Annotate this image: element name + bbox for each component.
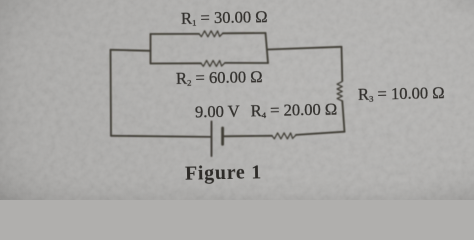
resistor R1 [199, 31, 223, 37]
battery short plate (negative) [221, 128, 224, 144]
wire: battery to R4 [223, 135, 272, 138]
wire: top branch right segment [223, 32, 266, 34]
wire: top branch left segment [151, 33, 200, 35]
wire: box right edge [266, 33, 269, 63]
wire: bottom branch left segment [151, 62, 202, 64]
wire: bottom branch right segment [225, 62, 268, 64]
wire: left connector from node A to box [111, 50, 151, 51]
wire: box left edge [150, 34, 152, 64]
resistor R4 [272, 133, 296, 139]
wire: box to right vertical [268, 47, 342, 50]
resistor R3 [337, 82, 342, 101]
wire: R4 to bottom right corner [296, 132, 345, 135]
label battery voltage and R4 value [195, 100, 338, 123]
wire: left vertical [110, 50, 113, 136]
label R3 value [358, 83, 445, 105]
label R2 value [176, 67, 263, 89]
caption Figure 1 [185, 161, 262, 185]
battery long plate (positive) [211, 122, 213, 157]
resistor R2 [201, 60, 225, 66]
wire: bottom left to battery [111, 136, 211, 137]
wire: right vertical lower [342, 101, 344, 132]
label R1 value [181, 7, 268, 29]
wire: right vertical upper [341, 47, 344, 81]
